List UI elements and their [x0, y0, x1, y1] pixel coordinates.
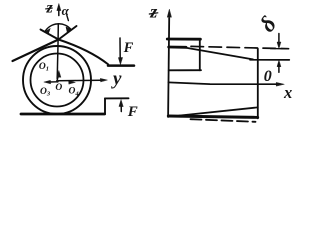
svg-text:z: z — [46, 0, 54, 17]
center O junction dot — [56, 80, 59, 83]
right edge of upper-left step — [199, 39, 201, 70]
delta dimension extension tick (upper) — [271, 48, 289, 50]
force F arrow (top, pressing down) — [119, 38, 121, 59]
force F arrow (bottom, pressing up) — [120, 106, 122, 112]
left V-block lower-right surface line (curves to step) — [59, 40, 109, 65]
y axis arrowhead — [100, 78, 107, 81]
small arrow O to O3 (left) — [49, 81, 58, 83]
delta dimension extension tick (lower) — [250, 59, 289, 61]
bottom edge of profile — [168, 116, 257, 117]
bottom edge of upper-left step — [169, 69, 201, 71]
stroke bar of right z glyph — [149, 13, 158, 14]
upper-left extension line of V — [41, 30, 59, 40]
x axis arrowhead — [276, 82, 284, 86]
ground line under roller — [21, 113, 105, 116]
small arrow O to O4 (right) — [69, 81, 76, 84]
arc arrowhead right — [66, 27, 71, 32]
z axis arrow at top — [58, 7, 60, 16]
x axis through profile — [168, 82, 278, 84]
left V-block lower-left surface line — [13, 40, 59, 62]
svg-text:α: α — [62, 3, 70, 18]
step top edge of lower plate — [105, 97, 129, 99]
svg-text:0: 0 — [264, 68, 272, 85]
svg-text:O3: O3 — [40, 87, 51, 98]
svg-text:F: F — [127, 104, 138, 120]
angle alpha arc — [45, 24, 71, 32]
top horizontal edge of upper plate — [108, 64, 134, 67]
stroke bar of left z glyph — [46, 7, 53, 10]
right figure: z axis — [168, 18, 169, 117]
svg-text:O4: O4 — [69, 87, 80, 98]
step vertical of lower plate — [104, 98, 106, 114]
arc arrowhead left — [45, 28, 51, 33]
svg-text:x: x — [283, 83, 292, 102]
small arrow O to O1 (up) — [57, 74, 58, 80]
svg-text:F: F — [123, 40, 134, 56]
lower sloping generatrix — [179, 107, 258, 115]
svg-text:z: z — [149, 2, 157, 22]
svg-text:y: y — [111, 68, 122, 89]
sloping generatrix (actual profile, upper) — [186, 48, 253, 60]
delta lower arrowhead (up to profile end) — [277, 60, 281, 67]
y axis from O to the right — [57, 79, 101, 82]
delta upper arrowhead (down to dashed line) — [277, 42, 281, 49]
upper-right extension line of V — [59, 26, 77, 40]
delta dimension line lower part — [278, 64, 280, 72]
inner circle of roller — [31, 54, 84, 107]
thick nominal line inside step — [169, 46, 186, 49]
z axis line through apex — [57, 24, 58, 79]
alpha leader tick — [67, 15, 69, 20]
dashed nominal line (upper) — [191, 46, 289, 48]
svg-text:O: O — [55, 83, 62, 93]
right end edge of profile — [257, 49, 259, 119]
top edge of profile — [167, 38, 200, 41]
svg-text:O1: O1 — [39, 62, 49, 73]
delta dimension line upper part — [278, 34, 280, 43]
outer circle of roller — [23, 46, 91, 114]
dashed nominal line (lower) — [191, 119, 256, 122]
svg-text:δ: δ — [255, 11, 282, 36]
